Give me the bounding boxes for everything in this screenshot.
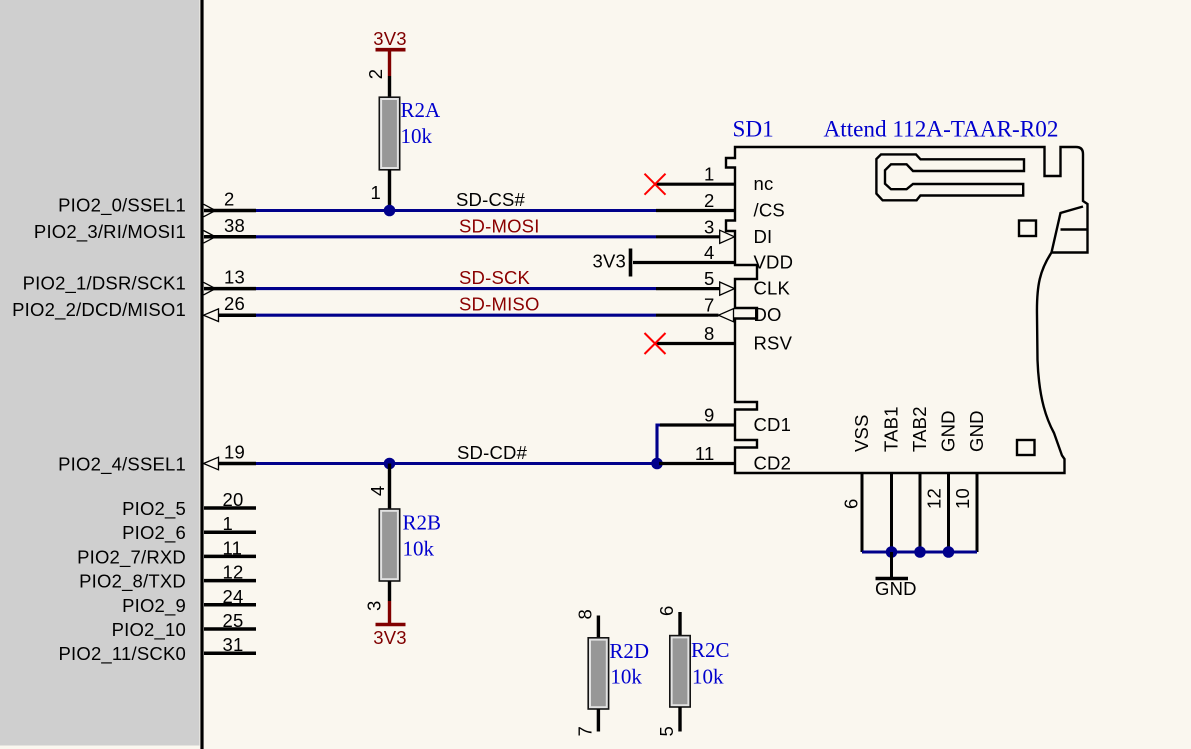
svg-text:VDD: VDD <box>754 252 794 273</box>
svg-text:4: 4 <box>367 486 388 497</box>
wire net SD-CD# <box>256 462 657 465</box>
junction SD-CD# to CD1/CD2 <box>651 458 663 470</box>
wire GND bus <box>862 550 977 553</box>
svg-text:10k: 10k <box>403 537 435 561</box>
svg-text:25: 25 <box>223 610 244 631</box>
svg-text:3V3: 3V3 <box>373 627 407 648</box>
wire 3V3 to R2A <box>388 50 391 76</box>
svg-text:GND: GND <box>875 578 917 599</box>
svg-text:PIO2_5: PIO2_5 <box>122 498 186 520</box>
pin 19 stub <box>219 462 257 466</box>
junction GND bus x=920 <box>914 546 926 558</box>
svg-text:5: 5 <box>656 726 677 737</box>
wire net SD-CS# <box>256 209 656 212</box>
svg-text:7: 7 <box>704 295 715 316</box>
svg-text:1: 1 <box>704 164 715 185</box>
pin 24 stub <box>204 603 256 607</box>
pin 2 /CS of SD1 <box>656 209 735 212</box>
svg-text:38: 38 <box>224 215 245 236</box>
svg-text:3: 3 <box>364 601 385 612</box>
wire net SD-MISO <box>256 314 656 317</box>
svg-text:PIO2_3/RI/MOSI1: PIO2_3/RI/MOSI1 <box>34 221 186 243</box>
svg-text:SD-CS#: SD-CS# <box>456 189 526 210</box>
pin VSS of SD1 (bottom) <box>861 473 864 552</box>
svg-text:PIO2_11/SCK0: PIO2_11/SCK0 <box>58 643 186 665</box>
pin 7 DO of SD1 <box>656 314 719 317</box>
svg-text:PIO2_9: PIO2_9 <box>122 595 186 617</box>
svg-text:2: 2 <box>365 69 386 80</box>
pin 25 stub <box>204 627 256 631</box>
svg-text:PIO2_0/SSEL1: PIO2_0/SSEL1 <box>58 195 186 217</box>
pin TAB2 of SD1 (bottom) <box>919 473 922 552</box>
junction GND bus x=891.5 <box>886 546 898 558</box>
sheet-symbol border <box>200 0 203 749</box>
pin 9 CD1 of SD1 <box>660 423 735 426</box>
svg-text:2: 2 <box>704 190 715 211</box>
junction on SD-CD# at R2B <box>384 458 396 470</box>
pin 4 VDD of SD1 <box>633 261 735 264</box>
pin 7 of R2D <box>597 709 600 732</box>
resistor R2B <box>379 509 399 581</box>
svg-text:4: 4 <box>704 242 715 263</box>
no-ERC cross on pin 8 <box>645 333 666 354</box>
pin 4 of R2B <box>388 464 391 510</box>
svg-text:PIO2_4/SSEL1: PIO2_4/SSEL1 <box>58 454 186 476</box>
svg-text:CLK: CLK <box>754 278 791 299</box>
SD socket SD1 outline <box>726 147 1088 473</box>
svg-text:PIO2_8/TXD: PIO2_8/TXD <box>79 571 186 593</box>
svg-text:VSS: VSS <box>851 414 872 452</box>
svg-text:20: 20 <box>223 489 244 510</box>
svg-text:Attend 112A-TAAR-R02: Attend 112A-TAAR-R02 <box>824 117 1059 143</box>
svg-text:5: 5 <box>704 268 715 289</box>
svg-text:SD-MISO: SD-MISO <box>459 294 540 315</box>
pin 6 of R2C <box>678 612 681 636</box>
svg-text:26: 26 <box>224 293 245 314</box>
svg-text:RSV: RSV <box>754 333 793 354</box>
SD socket write-protect fork <box>876 154 1024 200</box>
wire R2B to 3V3 <box>388 601 391 625</box>
wire net SD-SCK <box>256 287 656 290</box>
pin 26 stub <box>219 313 257 317</box>
svg-text:PIO2_10: PIO2_10 <box>112 619 186 641</box>
svg-text:CD1: CD1 <box>754 414 792 435</box>
svg-text:CD2: CD2 <box>754 453 792 474</box>
pin 8 RSV of SD1 <box>656 342 735 345</box>
svg-text:8: 8 <box>574 609 595 620</box>
svg-text:19: 19 <box>224 442 245 463</box>
pin 5 of R2C <box>678 707 681 732</box>
pin 8 of R2D <box>597 616 600 638</box>
ground symbol <box>890 552 893 577</box>
pin 1 nc of SD1 <box>656 183 735 186</box>
svg-text:TAB2: TAB2 <box>909 406 930 452</box>
svg-text:PIO2_2/DCD/MISO1: PIO2_2/DCD/MISO1 <box>12 299 186 321</box>
svg-text:SD1: SD1 <box>733 117 774 143</box>
svg-text:8: 8 <box>704 323 715 344</box>
pin 3 of R2B <box>388 581 391 601</box>
svg-text:R2D: R2D <box>609 639 649 663</box>
pin 3 DI of SD1 <box>656 235 720 238</box>
pin 1 stub <box>204 530 256 534</box>
svg-text:13: 13 <box>224 267 245 288</box>
svg-text:11: 11 <box>695 443 715 464</box>
SD socket card-stop tab detail <box>1052 207 1088 253</box>
pin 31 stub <box>204 651 256 655</box>
svg-text:TAB1: TAB1 <box>881 406 902 452</box>
wire CD1 riser <box>657 425 663 464</box>
svg-text:SD-MOSI: SD-MOSI <box>459 215 540 236</box>
svg-text:7: 7 <box>574 726 595 737</box>
svg-text:11: 11 <box>223 537 243 558</box>
svg-text:SD-SCK: SD-SCK <box>459 267 531 288</box>
no-ERC cross on pin 1 <box>645 174 666 195</box>
svg-text:10k: 10k <box>692 665 724 689</box>
resistor R2A <box>379 97 399 170</box>
svg-text:R2C: R2C <box>691 638 730 662</box>
svg-text:DO: DO <box>754 304 782 325</box>
SD socket pad square lower <box>1017 440 1035 455</box>
svg-text:GND: GND <box>938 410 959 452</box>
svg-text:12: 12 <box>924 488 945 509</box>
pin 11 CD2 of SD1 <box>659 462 735 465</box>
pin GND of SD1 (bottom) <box>976 473 979 552</box>
MCU sheet-symbol panel <box>0 0 200 746</box>
svg-text:1: 1 <box>223 513 234 534</box>
svg-text:24: 24 <box>223 586 244 607</box>
svg-text:1: 1 <box>371 182 382 203</box>
pin 5 CLK of SD1 <box>656 287 720 290</box>
junction GND bus x=948.5 <box>943 546 955 558</box>
pin 11 stub <box>204 555 256 559</box>
svg-text:10k: 10k <box>401 124 433 148</box>
resistor R2C <box>670 636 690 707</box>
pin 13 stub <box>204 287 256 291</box>
pin 38 stub <box>204 235 256 239</box>
svg-text:3V3: 3V3 <box>373 28 407 49</box>
svg-text:PIO2_7/RXD: PIO2_7/RXD <box>77 546 186 568</box>
svg-text:PIO2_6: PIO2_6 <box>122 522 186 544</box>
svg-text:2: 2 <box>224 189 235 210</box>
svg-text:9: 9 <box>704 405 715 426</box>
svg-text:3: 3 <box>704 216 715 237</box>
junction R2A / SD-CS# <box>384 205 396 217</box>
svg-text:R2A: R2A <box>401 98 442 122</box>
pin TAB1 of SD1 (bottom) <box>890 473 893 552</box>
SD socket pad square upper <box>1019 221 1036 237</box>
svg-text:6: 6 <box>841 499 862 510</box>
pin 2 stub <box>204 209 256 213</box>
svg-text:PIO2_1/DSR/SCK1: PIO2_1/DSR/SCK1 <box>23 273 186 295</box>
svg-text:R2B: R2B <box>403 511 442 535</box>
pin 20 stub <box>204 506 256 510</box>
svg-text:12: 12 <box>223 562 244 583</box>
pin 1 of R2A <box>388 170 391 211</box>
svg-text:6: 6 <box>656 606 677 617</box>
svg-text:31: 31 <box>223 634 244 655</box>
svg-text:10k: 10k <box>610 665 642 689</box>
svg-text:3V3: 3V3 <box>592 251 626 272</box>
svg-text:GND: GND <box>966 410 987 452</box>
svg-text:DI: DI <box>754 226 773 247</box>
power port 3V3 (bottom) <box>376 623 406 627</box>
svg-text:/CS: /CS <box>754 200 785 221</box>
svg-text:nc: nc <box>754 173 774 194</box>
pin GND of SD1 (bottom) <box>947 473 950 552</box>
svg-text:SD-CD#: SD-CD# <box>457 442 528 463</box>
pin 12 stub <box>204 579 256 583</box>
svg-text:10: 10 <box>952 488 973 509</box>
power port 3V3 at VDD <box>629 249 633 277</box>
wire net SD-MOSI <box>256 235 656 238</box>
resistor R2D <box>588 638 608 709</box>
